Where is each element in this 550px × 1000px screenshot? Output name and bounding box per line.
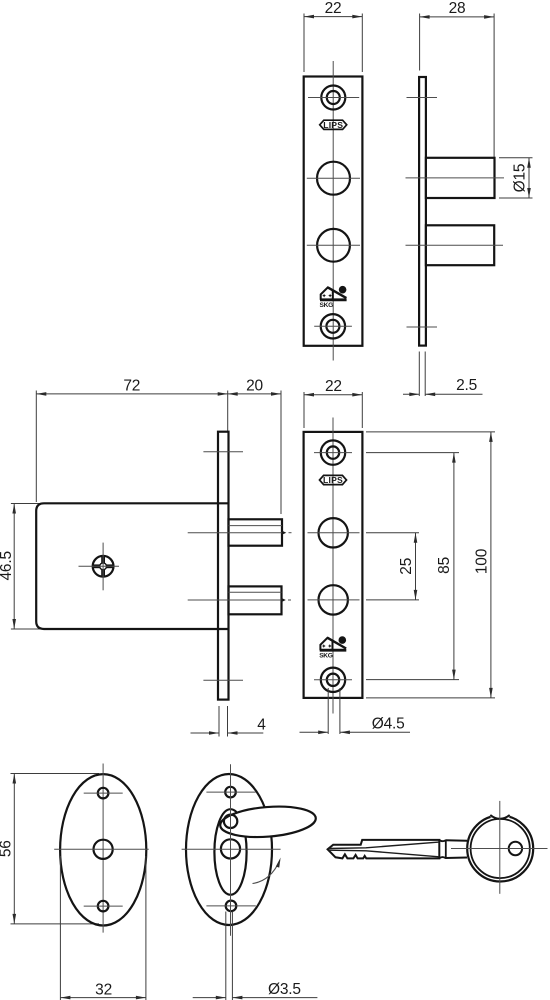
key blade outline with teeth: [328, 840, 440, 859]
LIPS logo: [320, 120, 347, 130]
key blade groove (lower line): [329, 850, 440, 857]
centerline bottom screw: [407, 326, 438, 328]
svg-text:100: 100: [473, 548, 490, 574]
key collar band: [446, 840, 467, 858]
dimension 2.5 (faceplate thickness): [403, 352, 483, 397]
centerline top screw: [407, 97, 438, 99]
dimension Ø4.5 (screw hole diameter): [300, 688, 411, 734]
dimension 22 (middle faceplate width): [304, 378, 362, 428]
SKG logo: [320, 286, 347, 309]
faceplate outline (front view): [304, 77, 363, 346]
screw hole top: [314, 440, 352, 464]
rotation direction arrow: [253, 857, 283, 884]
bolt pin 2 extended: [188, 586, 291, 614]
centerline top screw across strip: [203, 451, 243, 453]
lock body outline: [36, 503, 228, 629]
key ring hole: [509, 842, 522, 855]
centerline bottom screw across strip: [203, 679, 243, 681]
centerline pin 1: [406, 177, 505, 179]
dimension 56 (escutcheon height): [0, 774, 99, 924]
centerline horizontal: [182, 848, 281, 850]
escutcheon oval outline: [60, 774, 146, 925]
svg-text:32: 32: [95, 981, 112, 998]
key bow notch: [490, 813, 509, 819]
LIPS logo: [320, 475, 347, 485]
SKG logo: [319, 636, 346, 659]
svg-text:20: 20: [246, 377, 263, 394]
dimension 20 (bolt throw): [228, 377, 281, 514]
centerline pin 2: [406, 244, 504, 246]
svg-text:85: 85: [436, 557, 453, 574]
key centerline horizontal: [451, 848, 548, 850]
svg-text:22: 22: [325, 378, 342, 395]
key centerline vertical: [499, 801, 501, 894]
centerline vertical: [230, 764, 232, 936]
pin hole 2: [307, 229, 360, 262]
key blade groove (upper line): [329, 842, 440, 848]
key bow outer circle: [467, 816, 533, 882]
screw hole bottom: [314, 668, 352, 692]
spindle hole center: [54, 840, 149, 859]
svg-text:Ø4.5: Ø4.5: [372, 716, 405, 733]
bolt pin 2 (side view): [426, 225, 494, 265]
faceplate edge outline: [419, 77, 426, 346]
dimension 4 (faceplate edge thickness): [191, 706, 267, 737]
svg-text:56: 56: [0, 840, 14, 857]
dimension 25 (pin hole spacing): [366, 533, 419, 600]
svg-text:72: 72: [123, 377, 140, 394]
dimension 100 (faceplate length): [366, 432, 495, 698]
svg-text:Ø3.5: Ø3.5: [268, 981, 301, 998]
dimension Ø3.5 (screw hole diameter): [193, 912, 318, 1000]
screw hole top (countersunk): [308, 86, 359, 110]
screw hole bottom: [314, 314, 352, 338]
dimension Ø15 (pin diameter): [499, 158, 533, 198]
centerline vertical: [332, 61, 334, 361]
screw hole bottom: [206, 901, 255, 912]
thumb-turn knob (ellipse): [219, 803, 317, 840]
centerline vertical: [102, 764, 104, 933]
screw hole top: [206, 787, 255, 798]
bolt pin 1 extended: [188, 519, 292, 545]
faceplate edge-on strip: [218, 432, 229, 700]
dimension 32 (escutcheon width): [60, 856, 145, 1000]
spindle hole center: [221, 839, 240, 858]
svg-text:46.5: 46.5: [0, 551, 15, 580]
key bow inner circle: [471, 819, 530, 878]
bolt pin 1 (side view): [426, 158, 495, 198]
screw hole top: [84, 788, 123, 799]
svg-text:4: 4: [257, 717, 266, 734]
pin hole 1: [308, 518, 360, 547]
dimension 46.5 (body height): [0, 504, 40, 630]
dimension 72 (body length): [36, 377, 227, 502]
svg-text:28: 28: [449, 0, 466, 17]
escutcheon oval outline: [186, 774, 272, 925]
svg-text:25: 25: [398, 558, 415, 575]
thumb-turn pivot hole: [224, 815, 237, 828]
pin hole 1: [307, 162, 360, 195]
dimension 28 (backset): [420, 0, 495, 157]
fixing screw symbol (phillips head): [79, 543, 120, 591]
screw hole bottom: [84, 901, 123, 912]
pin hole 2: [308, 585, 360, 614]
faceplate outline (middle front view): [304, 432, 363, 698]
dimension 22 (top faceplate width): [304, 0, 362, 72]
centerline vertical: [332, 418, 334, 714]
inner rosette oval: [214, 809, 246, 895]
key collar neck: [439, 840, 446, 859]
svg-text:2.5: 2.5: [456, 377, 477, 394]
svg-text:22: 22: [325, 0, 342, 17]
svg-text:Ø15: Ø15: [512, 164, 529, 193]
dimension 85 (screw hole spacing): [366, 453, 459, 680]
